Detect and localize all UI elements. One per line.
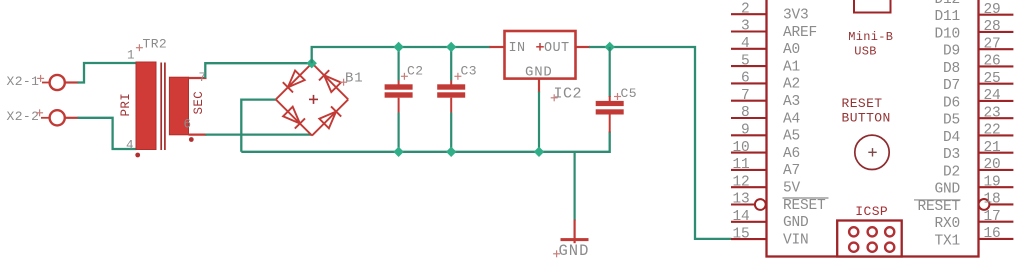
svg-text:C5: C5	[621, 86, 637, 101]
svg-text:17: 17	[984, 209, 1001, 225]
arduino left pin 11 (A7)	[731, 157, 800, 179]
svg-text:16: 16	[984, 226, 1001, 242]
arduino right pin 26 (D8)	[943, 54, 1013, 77]
svg-text:6: 6	[184, 118, 192, 132]
capacitor C3	[437, 47, 465, 152]
svg-text:A6: A6	[783, 146, 800, 162]
svg-text:2: 2	[741, 1, 750, 17]
svg-text:B1: B1	[345, 71, 363, 87]
svg-text:23: 23	[984, 105, 1001, 121]
svg-text:RX0: RX0	[934, 216, 960, 232]
wire bridge left vertex to ground rail	[241, 100, 275, 152]
svg-text:22: 22	[984, 123, 1001, 139]
svg-text:24: 24	[984, 88, 1001, 104]
arduino left pin 12 (5V)	[731, 174, 801, 196]
arduino module body	[767, 0, 979, 257]
TR2 polarity dot primary	[135, 153, 140, 158]
svg-text:OUT: OUT	[544, 41, 570, 56]
svg-text:RESET: RESET	[842, 96, 883, 111]
junction bridge top vertex	[307, 58, 317, 68]
svg-text:28: 28	[984, 19, 1001, 35]
junction regulator GND	[534, 147, 544, 157]
svg-text:A2: A2	[783, 77, 800, 93]
svg-text:A4: A4	[783, 111, 800, 127]
arduino right pin 22 (D4)	[943, 123, 1013, 146]
svg-text:A7: A7	[783, 163, 800, 179]
connector pin X2-1	[7, 74, 79, 90]
arduino right pin 27 (D9)	[943, 36, 1013, 59]
svg-text:5V: 5V	[783, 181, 801, 197]
svg-text:6: 6	[741, 71, 750, 87]
arduino right pin 24 (D6)	[943, 88, 1013, 111]
pin number 7	[199, 71, 207, 85]
svg-text:9: 9	[741, 123, 750, 139]
svg-text:A1: A1	[783, 59, 800, 75]
svg-text:27: 27	[984, 36, 1001, 52]
label Mini-B	[848, 30, 893, 44]
connector pin X2-2	[7, 109, 79, 126]
regulator pin label IN	[509, 41, 526, 56]
label ICSP	[855, 204, 888, 219]
svg-text:VIN: VIN	[783, 232, 809, 248]
ICSP header connector	[837, 221, 902, 257]
svg-text:D5: D5	[943, 113, 960, 129]
regulator IC2 IN pin stub	[490, 46, 505, 48]
svg-text:18: 18	[984, 192, 1001, 208]
svg-text:GND: GND	[559, 242, 590, 260]
transformer TR2 secondary winding SEC	[169, 77, 188, 135]
svg-text:D4: D4	[943, 130, 960, 146]
svg-text:19: 19	[984, 174, 1001, 190]
label PRI	[119, 93, 133, 117]
label C2	[401, 64, 424, 80]
capacitor C2	[385, 47, 413, 152]
regulator plus marker	[536, 43, 544, 51]
svg-text:D7: D7	[943, 78, 960, 94]
junction C2 bottom	[393, 147, 403, 157]
capacitor C5	[596, 47, 624, 133]
regulator GND pin stub	[538, 79, 540, 93]
svg-text:D11: D11	[934, 9, 960, 25]
TR2 pin 7 stub	[189, 77, 207, 79]
junction C3 bottom	[446, 147, 456, 157]
svg-text:4: 4	[741, 36, 750, 52]
label C5	[614, 86, 637, 101]
arduino right pin 21 (D3)	[943, 140, 1013, 163]
svg-text:GND: GND	[934, 182, 960, 198]
svg-text:20: 20	[984, 157, 1001, 173]
svg-text:AREF: AREF	[783, 25, 817, 41]
wire TR2 pin 7 to bridge top	[205, 63, 311, 78]
wire ground rail	[241, 132, 609, 152]
wire regulator GND to rail	[538, 92, 540, 152]
svg-text:7: 7	[741, 88, 750, 104]
svg-text:3: 3	[741, 19, 750, 35]
svg-text:D6: D6	[943, 95, 960, 111]
svg-text:ICSP: ICSP	[855, 204, 888, 219]
label RESET BUTTON	[842, 96, 891, 126]
arduino right pin 16 (TX1)	[934, 226, 1013, 249]
svg-text:29: 29	[984, 2, 1001, 18]
wire bridge top to regulator IN	[312, 47, 491, 63]
bridge plus marker	[309, 95, 318, 104]
svg-text:12: 12	[732, 174, 749, 190]
svg-text:BUTTON: BUTTON	[842, 111, 891, 126]
regulator pin label OUT	[544, 41, 570, 56]
svg-text:15: 15	[732, 226, 749, 242]
regulator pin label GND	[525, 65, 553, 81]
svg-text:IC2: IC2	[554, 86, 583, 103]
arduino left pin 2 (3V3)	[731, 1, 809, 23]
label GND net	[553, 242, 589, 260]
svg-text:SEC: SEC	[192, 91, 206, 115]
arduino left pin 15 (VIN)	[731, 226, 809, 248]
pin number 1	[127, 49, 135, 63]
svg-text:11: 11	[732, 157, 749, 173]
transformer TR2 label	[136, 37, 167, 52]
regulator OUT pin stub	[576, 46, 591, 48]
svg-text:X2-2: X2-2	[7, 109, 40, 124]
wire regulator OUT to VIN	[589, 47, 732, 239]
svg-text:PRI: PRI	[119, 93, 133, 117]
svg-text:13: 13	[732, 192, 749, 208]
arduino right pin 29 (D11)	[934, 2, 1013, 25]
svg-text:X2-1: X2-1	[7, 74, 40, 89]
TR2 polarity dot secondary	[189, 137, 194, 142]
svg-text:4: 4	[126, 139, 134, 153]
svg-text:D2: D2	[943, 164, 960, 180]
svg-text:TX1: TX1	[934, 233, 960, 249]
arduino left pin 6 (A2)	[731, 71, 800, 93]
svg-text:3V3: 3V3	[783, 8, 809, 24]
svg-text:25: 25	[984, 71, 1001, 87]
label B1	[340, 71, 363, 87]
svg-text:C3: C3	[461, 64, 477, 79]
svg-text:D12: D12	[934, 0, 960, 8]
svg-text:26: 26	[984, 54, 1001, 70]
reset button circle	[855, 135, 889, 169]
bridge rectifier B1	[276, 63, 348, 135]
voltage regulator IC2 body	[505, 31, 576, 79]
ground symbol GND	[561, 220, 589, 244]
arduino right pin 23 (D5)	[943, 105, 1013, 128]
svg-text:D10: D10	[934, 26, 960, 42]
svg-text:GND: GND	[783, 215, 809, 231]
svg-text:7: 7	[199, 71, 207, 85]
arduino right pin 30 (D12) cropped	[934, 0, 960, 8]
arduino left pin 5 (A1)	[731, 53, 800, 75]
transformer core	[161, 63, 165, 151]
svg-text:D3: D3	[943, 147, 960, 163]
svg-text:USB: USB	[854, 45, 877, 59]
arduino left pin 4 (A0)	[731, 36, 800, 58]
label USB	[854, 45, 877, 59]
svg-text:14: 14	[732, 209, 749, 225]
svg-text:1: 1	[127, 49, 135, 63]
svg-text:A5: A5	[783, 129, 800, 145]
svg-text:A3: A3	[783, 94, 800, 110]
wire TR2 pin 6 to bridge bottom	[205, 134, 311, 136]
wire X2-1 to TR2 pin 1	[78, 63, 137, 83]
arduino right pin 20 (D2)	[943, 157, 1013, 180]
arduino left pin 7 (A3)	[731, 88, 800, 110]
wire rail to ground symbol	[573, 152, 575, 221]
svg-text:TR2: TR2	[143, 37, 168, 52]
arduino left pin 8 (A4)	[731, 105, 800, 127]
svg-text:5: 5	[741, 53, 750, 69]
arduino right pin 18 (RESET)	[914, 192, 1013, 215]
arduino left pin 13 (RESET)	[731, 192, 829, 214]
mini-B USB connector outline	[854, 0, 891, 13]
svg-text:A0: A0	[783, 42, 800, 58]
svg-text:21: 21	[984, 140, 1001, 156]
junction OUT node	[605, 42, 615, 52]
arduino left pin 9 (A5)	[731, 123, 800, 145]
label IC2	[551, 86, 582, 103]
arduino right pin 28 (D10)	[934, 19, 1013, 42]
label SEC	[192, 91, 206, 115]
svg-text:10: 10	[732, 140, 749, 156]
svg-text:Mini-B: Mini-B	[848, 30, 893, 44]
junction C2 top	[393, 42, 403, 52]
arduino right pin 25 (D7)	[943, 71, 1013, 94]
junction C3 top	[446, 42, 456, 52]
pin number 4	[126, 139, 134, 153]
wire X2-2 to TR2 pin 4	[78, 118, 137, 149]
svg-text:D9: D9	[943, 44, 960, 60]
arduino right pin 19 (GND)	[934, 174, 1013, 197]
arduino left pin 14 (GND)	[731, 209, 809, 231]
svg-text:IN: IN	[509, 41, 526, 56]
svg-text:RESET: RESET	[917, 199, 960, 215]
svg-text:8: 8	[741, 105, 750, 121]
arduino right pin 17 (RX0)	[934, 209, 1013, 232]
svg-text:GND: GND	[525, 65, 553, 81]
svg-text:C2: C2	[407, 64, 423, 79]
TR2 pin 6 stub	[189, 134, 207, 136]
label C3	[454, 64, 477, 80]
svg-text:RESET: RESET	[783, 198, 826, 214]
transformer TR2 primary winding PRI	[136, 62, 156, 150]
svg-text:D8: D8	[943, 61, 960, 77]
pin number 6	[184, 118, 192, 132]
arduino left pin 10 (A6)	[731, 140, 800, 162]
arduino left pin 3 (AREF)	[731, 19, 817, 41]
